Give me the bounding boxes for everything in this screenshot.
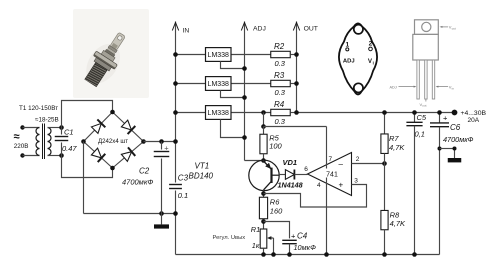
svg-text:R2: R2 — [274, 42, 285, 51]
svg-text:0.1: 0.1 — [178, 191, 188, 200]
svg-text:C6: C6 — [450, 123, 461, 132]
svg-text:VD1: VD1 — [283, 158, 298, 167]
svg-text:IN: IN — [183, 28, 190, 35]
svg-text:4700мкФ: 4700мкФ — [122, 177, 153, 186]
svg-text:741: 741 — [326, 172, 338, 179]
svg-text:3: 3 — [354, 177, 358, 184]
svg-text:Д242х4 шт: Д242х4 шт — [98, 138, 128, 145]
svg-text:2: 2 — [369, 41, 373, 48]
svg-text:R8: R8 — [390, 210, 400, 219]
svg-text:1: 1 — [345, 41, 349, 48]
svg-text:160: 160 — [270, 207, 283, 216]
svg-text:+: + — [443, 113, 448, 122]
svg-text:0.3: 0.3 — [275, 88, 286, 97]
svg-text:+: + — [339, 181, 344, 190]
svg-text:I: I — [373, 61, 374, 66]
svg-text:1к: 1к — [252, 241, 260, 250]
svg-text:LM338: LM338 — [208, 110, 230, 117]
svg-text:0,1: 0,1 — [415, 129, 425, 138]
svg-text:4700мкФ: 4700мкФ — [443, 135, 474, 144]
svg-text:R3: R3 — [274, 71, 285, 80]
svg-text:С4: С4 — [297, 232, 308, 241]
svg-text:in: in — [452, 86, 455, 90]
svg-text:BD140: BD140 — [189, 171, 214, 180]
svg-text:C2: C2 — [139, 167, 150, 176]
svg-text:1N4148: 1N4148 — [278, 180, 303, 189]
svg-text:ADJ: ADJ — [253, 25, 266, 32]
svg-text:–: – — [339, 160, 344, 169]
svg-text:10мкФ: 10мкФ — [294, 243, 317, 252]
svg-text:20А: 20А — [468, 117, 480, 124]
svg-text:C3: C3 — [178, 174, 189, 183]
svg-text:2: 2 — [356, 156, 360, 163]
svg-text:+: + — [164, 144, 169, 153]
svg-text:Регул. Uвых: Регул. Uвых — [213, 235, 246, 241]
svg-text:R4: R4 — [274, 100, 285, 109]
svg-text:VT1: VT1 — [195, 162, 210, 171]
svg-text:LM338: LM338 — [208, 81, 230, 88]
svg-text:Т1 120-150Вт: Т1 120-150Вт — [19, 105, 58, 112]
svg-text:220В: 220В — [14, 143, 29, 150]
svg-text:≈18-25В: ≈18-25В — [35, 117, 59, 124]
svg-text:OUT: OUT — [304, 25, 318, 32]
svg-text:C1: C1 — [64, 128, 74, 137]
svg-text:R1: R1 — [251, 225, 260, 234]
svg-text:0.47: 0.47 — [62, 144, 77, 153]
svg-text:4,7K: 4,7K — [390, 219, 406, 228]
svg-text:4,7K: 4,7K — [389, 143, 405, 152]
svg-text:C5: C5 — [417, 113, 427, 122]
svg-text:100: 100 — [269, 142, 282, 151]
svg-text:4: 4 — [317, 182, 321, 189]
svg-text:ADJ: ADJ — [343, 59, 355, 65]
svg-text:≈: ≈ — [14, 131, 20, 143]
svg-text:ADJ: ADJ — [390, 85, 397, 89]
svg-text:R6: R6 — [270, 198, 280, 207]
svg-text:out: out — [422, 104, 426, 108]
svg-text:+: + — [291, 232, 296, 241]
svg-text:6: 6 — [304, 166, 308, 173]
svg-text:0.3: 0.3 — [275, 59, 286, 68]
svg-text:R7: R7 — [389, 134, 399, 143]
svg-text:LM338: LM338 — [208, 52, 230, 59]
svg-text:out: out — [452, 27, 456, 31]
svg-text:0.3: 0.3 — [275, 117, 286, 126]
svg-text:7: 7 — [329, 156, 333, 163]
